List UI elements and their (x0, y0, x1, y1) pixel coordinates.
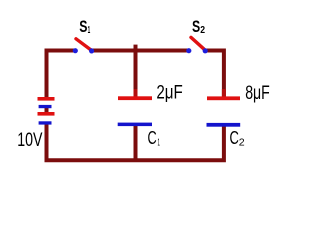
svg-text:2: 2 (200, 24, 205, 36)
svg-text:C: C (230, 127, 239, 148)
label S2 (192, 18, 205, 36)
switch S2 left contact (186, 48, 191, 53)
svg-text:S: S (192, 18, 200, 36)
capacitor C1 top plate (118, 96, 152, 100)
capacitor C1 bottom plate (118, 123, 152, 127)
switch S2 blade (191, 37, 205, 50)
switch S1 left contact (73, 48, 78, 53)
svg-text:C: C (148, 127, 157, 148)
svg-text:10V: 10V (17, 130, 42, 151)
svg-text:8μF: 8μF (245, 83, 270, 104)
wire: C1 top lead (node junction on top wire) (134, 45, 138, 90)
battery B1 (10V) plates (38, 97, 55, 125)
wire: C2 top lead bright transition (222, 89, 226, 97)
svg-text:1: 1 (88, 25, 91, 36)
wire: top-right corner and lead down to C2 top plate (205, 51, 224, 98)
svg-text:2μF: 2μF (156, 83, 182, 104)
label C2 (230, 127, 245, 148)
wire: C1 bottom lead (134, 125, 138, 159)
capacitor C2 bottom plate (207, 123, 241, 127)
svg-text:1: 1 (158, 137, 161, 148)
label S1 (79, 18, 90, 36)
wire: battery internal connector (45, 107, 49, 114)
switch S1 right contact (89, 48, 94, 53)
wire: battery bottom lead, bottom wire, C2 bottom lead (47, 123, 224, 160)
switch S2 right contact (203, 48, 208, 53)
capacitor C2 top plate (207, 96, 240, 100)
svg-text:S: S (79, 18, 87, 36)
wire: top middle segment between S1 and S2 (92, 49, 189, 53)
wire: top-left segment and left vertical down to battery (47, 51, 76, 99)
label C1 (148, 127, 161, 148)
switch S1 blade (76, 39, 92, 51)
svg-text:2: 2 (239, 136, 245, 148)
